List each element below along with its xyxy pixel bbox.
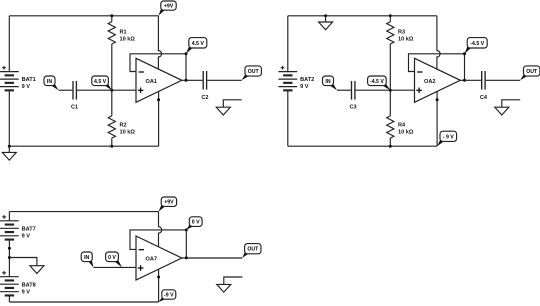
junction feedback / 4.5V label (185, 52, 188, 55)
junction feedback / -4.5V label (463, 52, 466, 55)
svg-text:OA2: OA2 (424, 79, 436, 85)
junction top rail / ground tap (324, 14, 327, 17)
wire feedback loop OA2 (409, 54, 465, 72)
wire feedback loop OA1 output to -input (130, 54, 186, 72)
wire divider node to op-amp +input (c2) (390, 89, 414, 91)
battery BAT2 9 V (278, 66, 314, 92)
junction midpoint / ground tap (8, 256, 11, 259)
svg-text:0 V: 0 V (108, 255, 116, 261)
wire OA7 output to OUT (182, 257, 243, 259)
junction output node OA1 (185, 79, 188, 82)
svg-text:OUT: OUT (526, 69, 538, 75)
wire BAT1 top terminal (8, 16, 10, 72)
wire bottom rail circuit 3 (9, 301, 158, 303)
svg-text:OA1: OA1 (146, 79, 158, 85)
svg-text:9 V: 9 V (300, 84, 309, 90)
input label IN (circuit 3) (81, 252, 93, 267)
svg-text:IN: IN (47, 79, 52, 85)
svg-text:C4: C4 (480, 95, 488, 101)
capacitor C2 (201, 71, 208, 101)
svg-text:4.5 V: 4.5 V (94, 79, 107, 85)
svg-text:+9V: +9V (164, 200, 174, 206)
svg-text:0 V: 0 V (192, 220, 200, 226)
svg-text:BAT1: BAT1 (22, 77, 36, 83)
junction BAT7 negative terminal (8, 247, 11, 250)
wire BAT7 top terminal (8, 212, 10, 221)
junction output node OA2 (463, 79, 466, 82)
svg-text:OUT: OUT (247, 247, 259, 253)
node label 4.5 V at output (circuit 1) (186, 38, 207, 54)
power label -9 V (circuit 3) (159, 290, 176, 302)
node label 0 V at input (circuit 3) (106, 252, 122, 267)
battery BAT1 9 V (0, 66, 36, 92)
power label - 9 V (circuit 2) (437, 131, 457, 146)
wire V- supply OA2 to bottom rail (436, 91, 438, 146)
svg-text:C1: C1 (71, 104, 78, 110)
junction output node OA7 (185, 256, 188, 259)
wire C2 to OUT (207, 79, 242, 81)
svg-text:9 V: 9 V (22, 289, 31, 295)
wire BAT8 bottom terminal to bottom rail (8, 296, 10, 303)
svg-text:R4: R4 (398, 122, 406, 128)
junction node 4.5V divider / C1 / R1 / R2 / +input (110, 89, 113, 92)
wire bottom rail circuit 1 (9, 145, 158, 147)
wire feedback vertical to output node (c3) (185, 230, 187, 258)
wire top rail circuit 2 (288, 15, 437, 17)
power label +9V (circuit 3) (159, 197, 177, 212)
svg-text:10 kΩ: 10 kΩ (120, 37, 136, 43)
node label 0 V at output (circuit 3) (186, 217, 202, 230)
op-amp OA1 (136, 58, 182, 102)
wire top rail circuit 1 (+9V rail) (9, 15, 158, 17)
wire V+ supply to OA2 from rail corner (hops feedback) (437, 16, 440, 69)
wire feedback vertical to output node (185, 54, 187, 81)
junction bottom rail / R2 (110, 145, 113, 148)
junction V- supply pin OA2 (436, 98, 439, 101)
svg-text:IN: IN (325, 79, 330, 85)
wire BAT7 to BAT8 (midpoint) (8, 240, 10, 277)
ground reference near OUT (circuit 1) (216, 100, 241, 115)
svg-text:BAT2: BAT2 (300, 77, 314, 83)
junction top rail / R1 (110, 14, 113, 17)
wire feedback vertical to output node (c2) (464, 54, 466, 81)
junction V- supply pin OA7 (157, 276, 160, 279)
junction bottom rail / R4 (389, 145, 392, 148)
wire V+ supply to OA1 (hops feedback) (158, 16, 161, 69)
resistor R2 10 kΩ (108, 90, 135, 146)
wire C4 to OUT (486, 79, 521, 81)
output label OUT (circuit 3) (242, 244, 261, 258)
junction top rail / R3 (389, 14, 392, 17)
wire divider node to op-amp +input (112, 89, 136, 91)
junction node -4.5V divider (389, 89, 392, 92)
svg-text:BAT8: BAT8 (22, 282, 36, 288)
output label OUT (circuit 2) (520, 66, 540, 80)
wire BAT1 bottom terminal to bottom rail (8, 90, 10, 146)
node label -4.5 V at output (circuit 2) (465, 38, 488, 54)
resistor R1 10 kΩ (108, 16, 135, 90)
svg-text:OUT: OUT (248, 69, 260, 75)
ground at battery midpoint (circuit 3) (9, 258, 44, 274)
svg-text:- 9 V: - 9 V (443, 134, 454, 140)
input label IN (circuit 2) (323, 76, 338, 90)
wire V- supply OA7 to bottom rail (158, 269, 160, 302)
svg-text:OA7: OA7 (146, 257, 158, 263)
capacitor C3 (350, 81, 357, 110)
svg-text:9 V: 9 V (22, 233, 31, 239)
wire bottom rail circuit 2 (288, 145, 437, 147)
svg-text:BAT7: BAT7 (22, 226, 36, 232)
wire OA2 output to C4 (460, 79, 481, 81)
ground reference near OUT (circuit 3) (217, 277, 243, 292)
ground below BAT1 (2, 146, 16, 160)
wire C3 to divider node (356, 89, 391, 91)
wire IN to C3 (337, 89, 351, 91)
output label OUT (circuit 1) (242, 66, 262, 80)
capacitor C4 (480, 71, 488, 101)
op-amp OA2 (415, 58, 461, 102)
wire feedback loop OA7 (130, 230, 186, 250)
svg-text:C2: C2 (201, 95, 208, 101)
svg-text:10 kΩ: 10 kΩ (398, 129, 414, 135)
svg-text:R1: R1 (120, 30, 127, 36)
wire V- supply OA1 to bottom rail (158, 91, 160, 146)
ground on top rail (circuit 2) (319, 16, 333, 30)
input label IN (circuit 1) (44, 76, 59, 90)
ground reference near OUT (circuit 2) (495, 100, 520, 115)
svg-text:9 V: 9 V (22, 84, 31, 90)
wire BAT2 top terminal (287, 16, 289, 72)
wire IN to C1 (59, 89, 73, 91)
power label +9V (circuit 1) (158, 1, 176, 16)
svg-text:-4.5 V: -4.5 V (370, 79, 384, 85)
wire top rail circuit 3 (9, 211, 158, 213)
svg-text:IN: IN (84, 255, 89, 261)
svg-text:+9V: +9V (164, 4, 174, 10)
node label 4.5 V at divider (circuit 1) (92, 76, 112, 90)
junction V- supply pin OA1 (157, 98, 160, 101)
svg-text:R2: R2 (120, 122, 127, 128)
svg-text:C3: C3 (350, 104, 357, 110)
wire OA1 output to C2 (182, 79, 203, 81)
resistor R4 10 kΩ (387, 90, 414, 146)
svg-text:-9 V: -9 V (164, 293, 174, 299)
svg-text:4.5 V: 4.5 V (192, 41, 205, 47)
wire BAT2 bottom terminal to bottom rail (287, 90, 289, 146)
svg-text:-4.5 V: -4.5 V (470, 41, 484, 47)
junction bottom rail / battery / ground (8, 145, 11, 148)
resistor R3 10 kΩ (387, 16, 414, 90)
battery BAT8 9 V (0, 271, 36, 297)
op-amp OA7 (136, 236, 182, 280)
wire IN to op-amp +input (c3) (94, 266, 137, 268)
svg-text:R3: R3 (398, 30, 405, 36)
wire V+ supply to OA7 (hops feedback) (159, 212, 162, 247)
junction feedback / 0V label (185, 228, 188, 231)
svg-text:10 kΩ: 10 kΩ (398, 37, 414, 43)
capacitor C1 (71, 81, 78, 110)
node label -4.5 V at divider (circuit 2) (368, 76, 391, 90)
svg-text:10 kΩ: 10 kΩ (120, 129, 136, 135)
battery BAT7 9 V (0, 215, 36, 241)
wire C1 to divider node (77, 89, 112, 91)
